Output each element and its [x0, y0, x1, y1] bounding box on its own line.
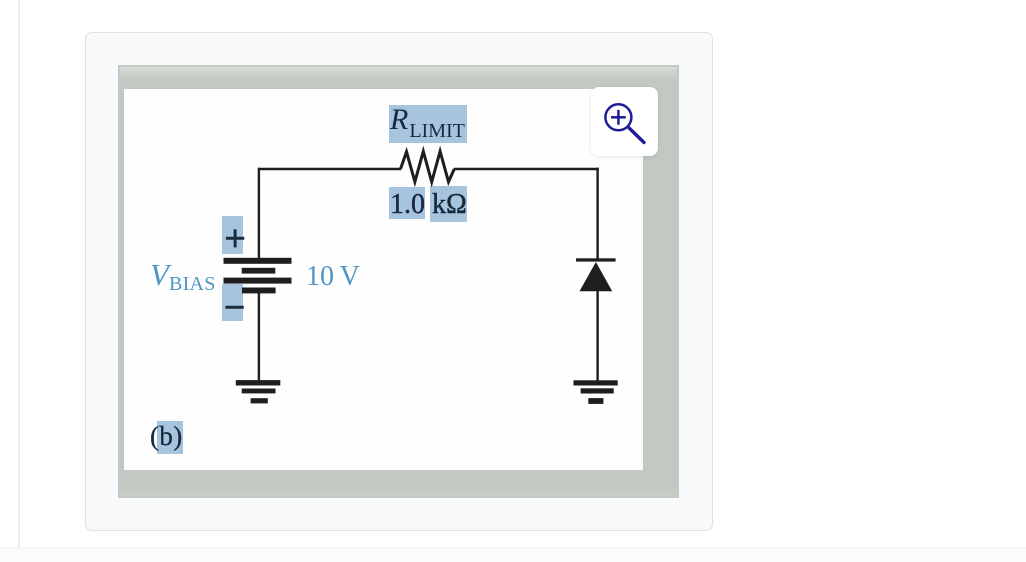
minus sign — [225, 306, 243, 309]
highlight box (b) — [157, 421, 183, 454]
wire top horizontal left — [258, 168, 401, 170]
footer strip — [0, 547, 1026, 562]
ground left — [236, 380, 280, 403]
wire battery to ground — [258, 293, 260, 381]
resistor R_LIMIT zigzag — [401, 151, 455, 182]
ground right — [574, 380, 618, 404]
wire right vertical — [596, 168, 598, 259]
zoom icon — [591, 87, 658, 156]
plus sign — [226, 229, 244, 247]
label V_BIAS — [150, 257, 216, 296]
highlight box 1.0 — [389, 187, 425, 219]
zoom button — [591, 87, 658, 156]
card panel — [85, 32, 713, 531]
highlight box minus — [222, 284, 243, 321]
highlight box R_LIMIT — [389, 105, 467, 143]
label 10 V — [306, 261, 360, 293]
battery V_BIAS plates — [224, 258, 292, 294]
wire top horizontal right — [454, 168, 599, 170]
figure frame (sage) — [118, 65, 679, 498]
highlight box kOhm — [430, 186, 467, 222]
figure white area — [124, 89, 643, 470]
wire diode to ground — [596, 290, 598, 381]
left page rule — [18, 0, 21, 562]
highlight box plus — [222, 216, 243, 254]
label 1.0 kOhm — [390, 189, 467, 221]
diode D1 — [576, 258, 616, 291]
wire left vertical — [258, 168, 260, 258]
label R_LIMIT — [390, 103, 465, 143]
label (b) — [150, 421, 183, 452]
